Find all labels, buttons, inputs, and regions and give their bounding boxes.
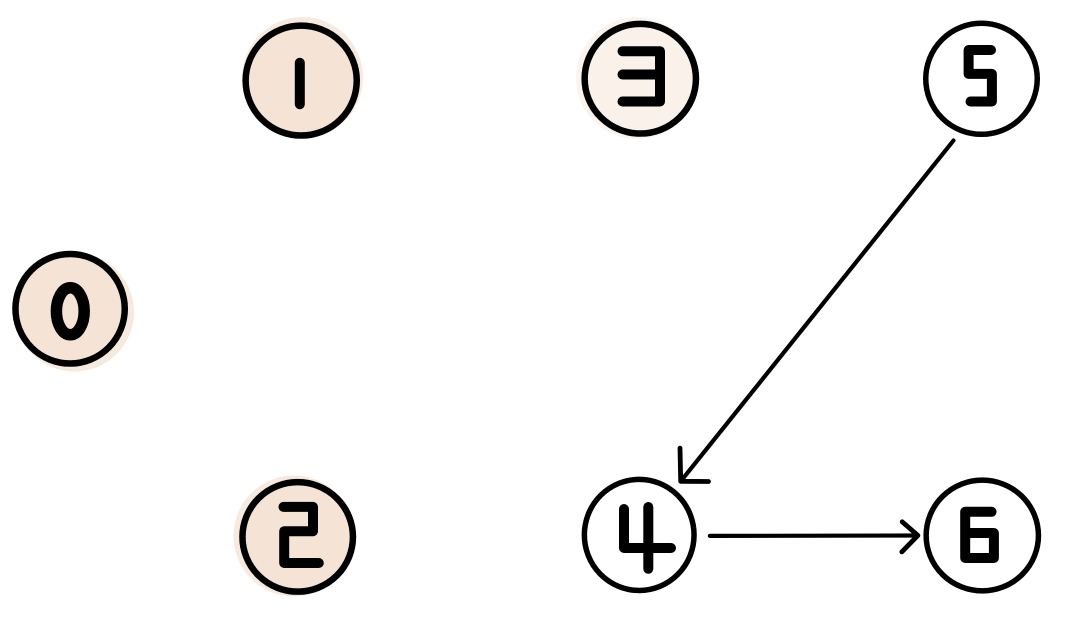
node 0 circle [15,254,124,364]
edge 4->6 shaft [710,533,916,538]
node 3 circle [585,24,696,134]
node 4 circle [584,479,694,590]
node 0 halo [15,253,134,372]
node 6 label "6" [965,512,994,558]
node 4 label "4" [624,507,671,569]
node 5 label "5" [969,50,992,102]
edge 4->6 arrowhead [902,522,918,552]
node 3 label "3" [623,51,661,101]
node 1 halo [242,17,363,138]
node 1 label "1" [295,63,305,104]
node 1 circle [246,26,357,136]
node 6 circle [926,480,1038,591]
node 2 label "2" [284,507,319,563]
node 2 halo [234,476,355,597]
node 3 halo [576,17,698,139]
node 5 circle [926,23,1038,134]
node 0 label "0" [56,288,84,335]
edge 5->4 shaft [684,141,954,478]
edge 5->4 arrowhead [680,448,709,481]
node 2 circle [242,482,353,592]
